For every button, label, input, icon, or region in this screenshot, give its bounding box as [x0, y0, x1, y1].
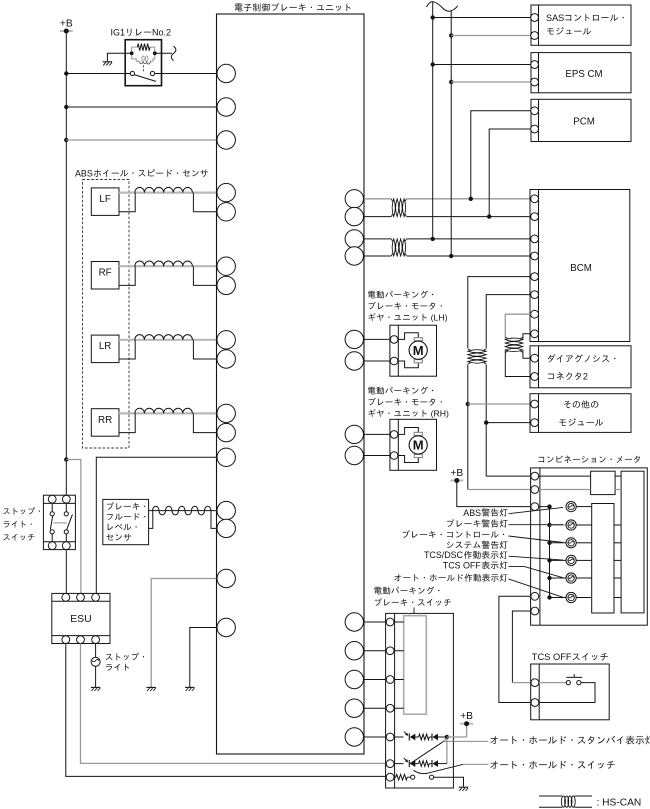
connector pin brake unit motor LH +: [345, 330, 363, 348]
power terminal +B (park switch): [460, 711, 473, 726]
wire to meter pin1: [486, 475, 531, 477]
connector pin brake unit to park switch 3: [345, 670, 363, 688]
ESU (electric steering unit): [52, 593, 110, 643]
wire ESU pin2 to park brake switch (shield): [81, 644, 386, 764]
wire lamp matrix stub: [614, 577, 621, 579]
wire brake unit to ESU pin3: [96, 457, 217, 593]
junction dot SAS-L: [449, 33, 453, 37]
wire down-pair L continues: [485, 364, 487, 476]
wire brake unit to ground 1 (shield): [151, 579, 217, 688]
label auto hold indicator: [394, 574, 507, 582]
leader brake warning: [509, 524, 564, 526]
label auto hold switch: [490, 761, 614, 769]
connector pin brake unit to park switch 2: [345, 642, 363, 660]
connector pin brake unit CAN2-H: [345, 230, 363, 248]
label electric parking brake motor gear unit (RH): [368, 387, 449, 419]
wire tap to other module pin1 (shield): [468, 403, 531, 405]
wire +B to meter pin3: [457, 481, 531, 507]
wire shield row A to row B: [446, 739, 448, 763]
ground (park brake switch): [459, 787, 468, 791]
leader auto hold indicator: [509, 579, 564, 597]
junction dot CAN2-H/SAS: [431, 237, 435, 241]
junction dot other-module L: [484, 420, 488, 424]
junction dots lamp bus: [547, 504, 551, 599]
wire row3 to brake unit (shield): [66, 139, 217, 141]
auto hold switch contacts (row C): [395, 774, 434, 780]
leader auto hold switch label: [463, 763, 488, 765]
wire CAN2-L left: [364, 255, 391, 257]
ground (stop light): [91, 687, 100, 691]
wires bus to lamps: [550, 525, 567, 578]
indicator lamp brake control system warning: [566, 538, 592, 548]
label ABS wheel speed sensor: [75, 169, 208, 179]
indicator lamp ABS warning: [566, 502, 592, 512]
svg-text:M: M: [413, 343, 424, 358]
twisted braid CAN1: [391, 199, 406, 217]
ABS wheel speed sensor RR: [91, 409, 119, 437]
svg-text:EPS CM: EPS CM: [565, 69, 602, 80]
connector pin brake unit CAN2-L: [345, 247, 363, 265]
ground (brake unit 2): [185, 687, 194, 691]
svg-text:IG1: IG1: [111, 28, 126, 38]
wire park switch pin to rocker: [395, 679, 404, 681]
wire stop light to ground: [95, 666, 97, 687]
ABS wheel speed sensor LR: [91, 335, 119, 363]
motor unit RH (M): [390, 419, 437, 470]
wire PCM pin2 tap: [489, 129, 531, 217]
label ABS warning light: [463, 508, 507, 518]
junction dot +B/relay feed: [64, 71, 68, 75]
wire BCM pin6 down-pair: [486, 295, 531, 349]
junction dot SAS-H: [431, 15, 435, 19]
junction dot row3: [64, 138, 68, 142]
EPS CM module: [531, 53, 631, 93]
connector pins RR at brake unit: [217, 404, 235, 442]
ground (relay IG1): [103, 62, 112, 66]
wire +B to relay IG1: [66, 73, 125, 75]
label TCS/DSC indicator: [424, 550, 508, 560]
twisted pair wires sensor LF: [119, 187, 217, 211]
connector pins RF at brake unit: [217, 257, 235, 295]
wire to EPS pin2: [451, 81, 531, 83]
wire to motor RH pin2: [364, 455, 390, 457]
leader TCS OFF: [509, 566, 564, 577]
ABS wheel speed sensor RF: [91, 262, 119, 290]
svg-text:LR: LR: [99, 341, 112, 352]
twisted pair wires sensor RF: [119, 261, 217, 285]
svg-text:ABS: ABS: [463, 508, 481, 518]
wire tap to other module pin2: [486, 422, 531, 424]
leader auto hold standby label: [444, 738, 489, 742]
wire to SAS pin2: [451, 35, 531, 37]
connector pin brake unit motor RH +: [345, 425, 363, 443]
ground (brake unit 1): [147, 687, 156, 691]
wire vertical CAN-H to SAS/EPS: [432, 2, 434, 239]
connector pin brake unit ground 1: [217, 569, 235, 587]
wire to EPS pin1: [433, 64, 531, 66]
leader brake control system: [509, 536, 564, 543]
wire relay coil to ground: [107, 53, 131, 61]
wire to motor LH pin2: [364, 360, 390, 362]
wire park switch pin to rocker: [395, 621, 404, 623]
twisted braid CAN2: [391, 239, 406, 256]
wire lamp matrix stub: [614, 542, 621, 544]
svg-text:(LH): (LH): [428, 313, 447, 323]
park brake switch body: [386, 613, 454, 788]
svg-text:TCS OFF: TCS OFF: [532, 652, 572, 662]
label electric parking brake switch: [374, 587, 451, 606]
junction dot other-module H: [466, 402, 470, 406]
wire CAN1-L left: [364, 216, 391, 218]
connector pin brake unit to park switch 4: [345, 699, 363, 717]
svg-text:TCS/DSC: TCS/DSC: [424, 550, 464, 560]
junction dot EPS-H: [431, 62, 435, 66]
relay IG1 No.2: [111, 28, 172, 86]
PCM module: [531, 99, 631, 141]
wire lamp matrix stub: [614, 559, 621, 561]
combination meter box: [531, 468, 648, 625]
wire meter pin1 to logic: [539, 475, 621, 477]
connector pin brake unit to park switch 1: [345, 613, 363, 631]
twisted pair wires sensor LR: [119, 335, 217, 359]
brake fluid level sensor: [103, 499, 149, 544]
label brake control system warning 1: [403, 530, 505, 538]
connector pin brake unit CAN1-L: [345, 207, 363, 225]
wire BCM pin7 diag-pair (shield): [505, 314, 531, 339]
connector pin brake unit motor LH -: [345, 352, 363, 370]
wire to motor RH pin1: [364, 433, 390, 435]
svg-text:+B: +B: [460, 711, 473, 722]
indicator lamp TCS OFF indicator: [566, 573, 592, 583]
lever auto hold switch: [414, 764, 464, 773]
wire lamp matrix stub: [614, 597, 621, 599]
wire BCM pin5 down-pair: [468, 277, 531, 349]
wire diag-pair to connector pin2: [505, 351, 531, 377]
junction dot row A: [445, 735, 449, 739]
wire relay to brake unit: [162, 73, 218, 75]
connector pin brake unit row2: [217, 98, 235, 116]
park switch rocker block: [404, 613, 427, 714]
wire lamp supply bus: [539, 507, 566, 598]
indicator lamp brake warning: [566, 520, 592, 530]
TCS OFF switch: [531, 664, 610, 720]
wire brake unit to park switch 2: [364, 650, 386, 652]
connector pin brake unit motor RH -: [345, 446, 363, 464]
twisted braid diagnosis CAN: [505, 337, 523, 352]
label electronic brake control unit: [235, 3, 351, 11]
wire meter pin2 to logic (shield): [539, 489, 621, 491]
power terminal +B (top left): [60, 18, 73, 33]
diagnosis connector 2: [530, 346, 631, 388]
svg-text:ABS: ABS: [75, 169, 93, 179]
meter inner box right: [621, 471, 644, 613]
meter inner box small: [591, 471, 616, 494]
wire to meter pin2 (shield): [468, 489, 531, 491]
wire break symbol (continuation wave): [427, 2, 458, 12]
leader TCS/DSC: [509, 556, 564, 560]
wire CAN2-H left: [364, 238, 391, 240]
motor unit LH (M): [390, 325, 437, 376]
twisted braid BCM CAN down: [468, 349, 486, 364]
ABS wheel speed sensor LF: [91, 188, 119, 216]
junction dot row2: [64, 105, 68, 109]
connector pin brake unit to park switch 5: [345, 728, 363, 746]
svg-text:TCS OFF: TCS OFF: [443, 561, 482, 571]
wire stop light switch to ESU pin1: [65, 550, 67, 594]
wire brake unit to park switch 4: [364, 707, 386, 709]
wire vertical CAN-L to SAS/EPS: [450, 11, 452, 256]
wire to motor LH pin1: [364, 338, 390, 340]
svg-text:+B: +B: [60, 18, 73, 29]
indicator lamp auto hold indicator: [566, 592, 592, 602]
wire BCM pin8 diag-pair: [523, 334, 531, 339]
connector pin brake unit row3: [217, 131, 235, 149]
junction dot CAN1-H/PCM: [469, 197, 473, 201]
label stop light switch: [3, 507, 40, 540]
svg-text:PCM: PCM: [573, 116, 595, 127]
wire meter pin5 to TCS OFF switch: [512, 611, 531, 683]
svg-text:BCM: BCM: [570, 263, 592, 274]
junction dot ESU branch: [64, 457, 68, 461]
label brake warning light: [447, 519, 507, 527]
svg-text:LF: LF: [99, 194, 110, 205]
wire +B vertical bus: [65, 31, 67, 495]
svg-text:M: M: [413, 438, 424, 453]
label brake control system warning 2: [447, 541, 508, 549]
legend HS-CAN twisted pair: [539, 796, 641, 808]
connector pins LR at brake unit: [217, 331, 235, 369]
connector pin brake unit ground 2: [217, 618, 235, 636]
label combination meter: [539, 456, 640, 464]
junction dot CAN2-L/SAS: [449, 254, 453, 258]
stop light switch: [43, 495, 75, 549]
wire brake unit to park switch 1: [364, 621, 386, 623]
electronic brake control unit box: [217, 14, 365, 754]
other modules box: [530, 394, 631, 433]
wire CAN1-H left: [364, 198, 391, 200]
connector pins fluid sensor at brake unit: [217, 501, 235, 537]
twisted pair wires sensor RR: [119, 408, 217, 432]
changeover contact diagonal: [410, 741, 444, 764]
wire +B branch to ESU pin2: [66, 460, 81, 594]
label TCS OFF switch: [532, 652, 608, 662]
leader ABS warning: [509, 507, 564, 513]
SAS control module: [531, 5, 631, 45]
wire CAN2-H to BCM: [407, 238, 531, 240]
power terminal +B (meter): [450, 468, 463, 483]
wire lamp matrix stub: [614, 524, 621, 526]
BCM module: [530, 190, 630, 342]
svg-text:+B: +B: [450, 468, 463, 479]
auto hold standby LED circuit (row A): [395, 731, 447, 740]
wire park switch pin to rocker: [395, 707, 404, 709]
wire ESU pin1 to park brake switch: [66, 644, 386, 777]
stop light lamp: [91, 653, 144, 671]
connector pin brake unit to ESU: [217, 448, 235, 466]
wire CAN1-H to BCM: [407, 198, 531, 200]
label auto hold standby indicator: [490, 736, 650, 745]
wire diag-pair to connector pin1: [523, 351, 531, 358]
svg-text:SAS: SAS: [546, 13, 564, 23]
wire row A to +B (shield): [447, 724, 467, 737]
svg-text:2: 2: [583, 372, 588, 382]
svg-text:: HS-CAN: : HS-CAN: [597, 797, 642, 808]
junction dot EPS-L: [449, 80, 453, 84]
wire row C to ground: [434, 777, 464, 787]
svg-text:RR: RR: [98, 415, 112, 426]
meter inner box middle: [592, 504, 614, 614]
connector pin brake unit CAN1-H: [345, 190, 363, 208]
indicator lamp TCS/DSC indicator: [566, 555, 592, 565]
wire CAN2-L to BCM: [407, 255, 531, 257]
wire down-pair H continues: [467, 364, 469, 489]
wire brake unit to park switch 5: [364, 736, 386, 738]
label TCS OFF indicator: [443, 561, 508, 571]
svg-text:(RH): (RH): [428, 409, 449, 419]
connector pins LF at brake unit: [217, 183, 235, 221]
svg-text:ESU: ESU: [70, 614, 91, 625]
wire row2 to brake unit: [66, 106, 217, 108]
junction dot CAN1-L/PCM: [487, 214, 491, 218]
wire into TCS OFF pin1 (shield): [512, 682, 531, 684]
wire ESU pin3 to stop light: [95, 644, 97, 658]
coiled wires fluid level sensor: [149, 506, 217, 528]
wire PCM pin1 tap: [471, 111, 531, 199]
connector pin brake unit relay feed: [217, 64, 235, 82]
label electric parking brake motor gear unit (LH): [368, 291, 448, 323]
auto hold LED circuit (row B): [395, 758, 447, 767]
wire brake unit to ground 2: [190, 628, 217, 688]
dashed group box ABS sensors: [83, 180, 130, 449]
svg-text:No.2: No.2: [152, 28, 171, 38]
wire park switch pin to rocker: [395, 650, 404, 652]
wire meter pin4 to TCS OFF switch: [499, 596, 531, 702]
leader park brake switch label: [413, 608, 415, 614]
svg-text:RF: RF: [99, 268, 112, 279]
wire CAN1-L to BCM: [407, 216, 531, 218]
wire relay coil continuation hook: [155, 46, 176, 60]
wire brake unit to park switch 3: [364, 679, 386, 681]
wire to SAS pin1: [433, 17, 531, 19]
